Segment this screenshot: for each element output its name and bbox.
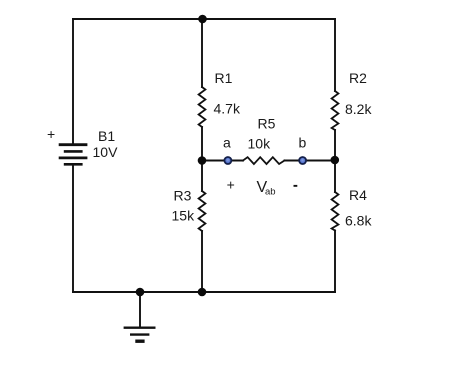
wire node a to R5: [228, 160, 243, 162]
svg-text:10k: 10k: [248, 136, 272, 152]
svg-text:+: +: [227, 177, 235, 193]
svg-text:R2: R2: [349, 70, 367, 86]
wire ground stem: [139, 292, 141, 328]
resistor R5 zigzag: [243, 157, 285, 164]
wire node b to right junction: [303, 160, 335, 162]
svg-text:R3: R3: [174, 188, 192, 204]
junction dot middle-right: [331, 156, 340, 165]
node b circle: [299, 157, 306, 164]
wire middle vertical between R1 and node row: [201, 127, 203, 191]
svg-text:4.7k: 4.7k: [214, 101, 241, 117]
wire middle vertical above R1: [201, 19, 203, 87]
svg-text:Vab: Vab: [257, 179, 276, 198]
node a circle: [224, 157, 231, 164]
wire left vertical upper (to battery +): [72, 19, 74, 145]
svg-text:15k: 15k: [172, 208, 196, 224]
wire right vertical below R4: [334, 231, 336, 293]
wire middle vertical below R3: [201, 231, 203, 292]
resistor R3 zigzag: [199, 191, 206, 231]
svg-text:R5: R5: [258, 116, 276, 132]
svg-text:10V: 10V: [93, 144, 119, 160]
ground bar 3: [135, 340, 144, 343]
svg-text:+: +: [47, 126, 55, 142]
wire top horizontal: [73, 18, 335, 20]
wire right vertical above R2: [334, 19, 336, 91]
svg-text:8.2k: 8.2k: [345, 101, 372, 117]
svg-text:B1: B1: [98, 128, 115, 144]
ground symbol bars: [124, 328, 156, 342]
svg-text:a: a: [223, 135, 231, 151]
resistor R2 zigzag: [332, 91, 339, 130]
junction dot bottom-ground: [136, 288, 145, 297]
svg-text:R1: R1: [215, 70, 233, 86]
junction dot middle-left: [198, 156, 207, 165]
battery plate long: [59, 156, 88, 159]
battery plate short bottom (-): [64, 163, 83, 166]
Vab minus sign: [294, 185, 298, 187]
wire R5 to node b: [285, 160, 303, 162]
ground bar 2: [130, 333, 149, 335]
svg-text:R4: R4: [349, 187, 367, 203]
wire right vertical between R2 and node row: [334, 130, 336, 192]
wire left vertical lower (battery - to bottom): [72, 164, 74, 292]
wire bottom horizontal: [73, 291, 335, 293]
ground bar 1: [124, 327, 156, 329]
svg-text:6.8k: 6.8k: [345, 213, 372, 229]
svg-text:b: b: [299, 135, 307, 151]
resistor R4 zigzag: [332, 192, 339, 231]
wire node row: middle junction to node a: [202, 160, 228, 162]
battery plate short: [64, 150, 83, 153]
junction dot bottom-middle: [198, 288, 207, 297]
battery plate long top (+): [59, 143, 88, 146]
battery B1 plates: [59, 145, 88, 165]
resistor R1 zigzag: [199, 87, 206, 127]
junction dot top: [198, 15, 207, 24]
